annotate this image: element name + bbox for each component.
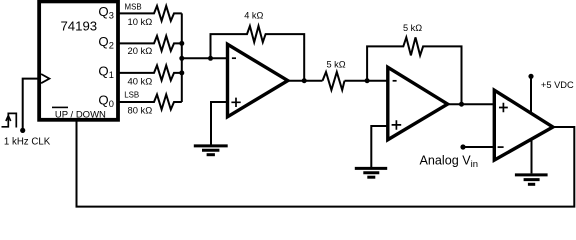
- svg-text:Q: Q: [98, 93, 108, 108]
- junction dots on summing bus: [179, 41, 184, 76]
- op-amp U2: [228, 44, 288, 117]
- svg-text:5 kΩ: 5 kΩ: [327, 60, 346, 70]
- wire comparator V- to ground: [531, 139, 533, 173]
- svg-text:40 kΩ: 40 kΩ: [128, 75, 153, 86]
- resistor R2 20 kOhm (Q2): [116, 36, 182, 56]
- svg-text:20 kΩ: 20 kΩ: [128, 45, 153, 56]
- svg-text:0: 0: [109, 99, 114, 109]
- op-amp U3: [388, 67, 448, 139]
- wire bus tap to op-amp inverting input: [182, 57, 228, 59]
- wire op-amp U3 noninverting input to ground: [371, 126, 388, 167]
- svg-text:Q: Q: [98, 34, 108, 49]
- label 1 kHz CLK: [4, 136, 51, 147]
- svg-text:4 kΩ: 4 kΩ: [244, 10, 263, 20]
- svg-text:+5 VDC: +5 VDC: [541, 80, 574, 90]
- svg-text:1 kHz CLK: 1 kHz CLK: [4, 136, 51, 147]
- counter U1 74193: [39, 1, 118, 120]
- junction dot stage2 feedback tap: [459, 102, 464, 107]
- terminal dot 1 kHz CLK: [20, 128, 25, 133]
- resistor R4 80 kOhm (Q0, LSB): [116, 91, 182, 116]
- svg-text:MSB: MSB: [125, 2, 142, 11]
- svg-text:10 kΩ: 10 kΩ: [128, 16, 153, 27]
- junction dot feedback tap stage1: [302, 78, 307, 83]
- label Analog Vin: [420, 153, 479, 170]
- ground G2: [355, 168, 387, 177]
- junction dot op-amp U3 input node: [365, 78, 370, 83]
- svg-text:Q: Q: [98, 64, 108, 79]
- ground G3: [515, 175, 548, 184]
- wire stage1 output: [288, 80, 388, 82]
- resistor R7 5 kOhm feedback around op-amp U3: [367, 23, 461, 104]
- svg-text:Q: Q: [98, 4, 108, 19]
- svg-text:UP / DOWN: UP / DOWN: [55, 109, 106, 120]
- svg-text:74193: 74193: [60, 19, 97, 34]
- svg-text:3: 3: [109, 11, 114, 21]
- wire op-amp U2 noninverting input to ground: [211, 102, 228, 145]
- clock pulse source glyph: [2, 113, 17, 127]
- resistor R5 4 kOhm feedback around op-amp U2: [211, 10, 305, 80]
- terminal dot Analog Vin: [460, 144, 465, 149]
- terminal dot +5 VDC: [528, 74, 533, 79]
- wire clock input: [23, 79, 40, 130]
- label +5 VDC: [541, 80, 574, 90]
- ground G1: [194, 146, 228, 155]
- wire summing bus: [181, 13, 183, 102]
- resistor R6 5 kOhm series: [323, 60, 346, 90]
- svg-text:2: 2: [109, 41, 114, 51]
- svg-text:LSB: LSB: [124, 91, 139, 100]
- resistor R1 10 kOhm (Q3, MSB): [116, 2, 182, 27]
- wire stage2 output: [446, 103, 494, 105]
- wire +5 VDC supply to comparator V+: [530, 76, 532, 118]
- comparator U4: [494, 90, 553, 160]
- svg-text:5 kΩ: 5 kΩ: [403, 23, 422, 33]
- svg-text:Analog Vin: Analog Vin: [420, 153, 479, 170]
- resistor R3 40 kOhm (Q1): [116, 65, 182, 86]
- junction dot op-amp U2 input node: [208, 56, 213, 61]
- svg-text:80 kΩ: 80 kΩ: [128, 104, 153, 115]
- wire feedback loop from comparator output to UP/DOWN pin: [77, 119, 575, 207]
- wire Analog Vin to comparator inverting input: [463, 146, 494, 148]
- svg-text:1: 1: [109, 70, 114, 80]
